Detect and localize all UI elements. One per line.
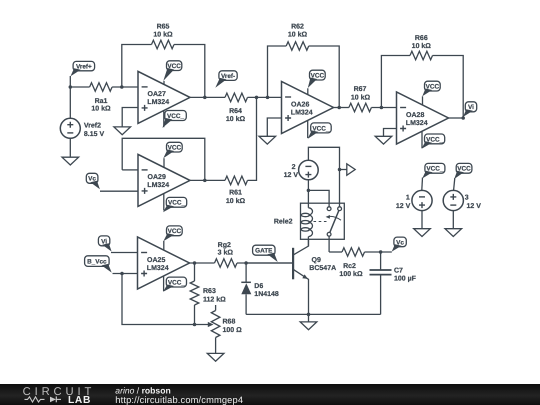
- svg-text:VCC_: VCC_: [167, 113, 184, 120]
- svg-text:10 kΩ: 10 kΩ: [351, 94, 371, 102]
- svg-text:OA29: OA29: [148, 174, 166, 181]
- svg-text:VCC: VCC: [167, 63, 181, 70]
- svg-text:OA27: OA27: [148, 91, 166, 98]
- svg-text:3: 3: [465, 194, 469, 201]
- svg-text:VCC: VCC: [457, 166, 471, 173]
- svg-text:Vc: Vc: [396, 239, 404, 246]
- svg-text:Vref-: Vref-: [221, 73, 235, 80]
- svg-text:LAB: LAB: [68, 395, 91, 405]
- svg-text:R68: R68: [223, 318, 236, 325]
- svg-text:Vref2: Vref2: [84, 121, 101, 129]
- svg-text:8.15 V: 8.15 V: [84, 131, 105, 138]
- svg-text:VCC: VCC: [168, 145, 182, 152]
- svg-text:3 kΩ: 3 kΩ: [218, 248, 234, 256]
- svg-text:R64: R64: [229, 108, 242, 115]
- svg-text:C7: C7: [394, 267, 403, 274]
- svg-text:Rc2: Rc2: [343, 263, 356, 270]
- svg-text:OA25: OA25: [147, 257, 165, 264]
- svg-text:10 kΩ: 10 kΩ: [412, 42, 432, 50]
- svg-text:VCC_: VCC_: [168, 200, 185, 207]
- svg-text:Vi: Vi: [101, 238, 107, 245]
- svg-text:112 kΩ: 112 kΩ: [203, 296, 226, 304]
- svg-text:100 kΩ: 100 kΩ: [339, 270, 363, 278]
- svg-text:12 V: 12 V: [467, 203, 482, 210]
- svg-text:B_Vcc: B_Vcc: [87, 259, 107, 266]
- svg-text:12 V: 12 V: [396, 203, 411, 210]
- svg-text:Vref+: Vref+: [76, 64, 92, 71]
- svg-text:R62: R62: [291, 24, 304, 31]
- svg-text:OA28: OA28: [406, 112, 424, 119]
- svg-text:Q9: Q9: [312, 257, 321, 264]
- svg-text:12 V: 12 V: [284, 172, 299, 179]
- svg-text:D6: D6: [254, 283, 263, 290]
- svg-text:R67: R67: [354, 86, 367, 93]
- svg-text:VCC_: VCC_: [312, 125, 329, 132]
- svg-text:10 kΩ: 10 kΩ: [226, 115, 246, 123]
- svg-text:1N4148: 1N4148: [254, 291, 279, 298]
- svg-text:R66: R66: [415, 35, 428, 42]
- svg-text:OA26: OA26: [291, 101, 309, 108]
- svg-text:R65: R65: [157, 24, 170, 31]
- svg-text:VCC: VCC: [426, 84, 440, 91]
- svg-text:VCC: VCC: [168, 228, 182, 235]
- svg-text:BC547A: BC547A: [309, 265, 336, 272]
- svg-text:Vi: Vi: [468, 104, 474, 111]
- svg-text:1: 1: [406, 194, 410, 201]
- svg-text:http://circuitlab.com/cmmgep4: http://circuitlab.com/cmmgep4: [115, 395, 243, 405]
- svg-text:10 kΩ: 10 kΩ: [91, 104, 111, 112]
- svg-text:LM324: LM324: [406, 120, 428, 127]
- svg-text:Ra1: Ra1: [95, 98, 108, 105]
- svg-text:VCC_: VCC_: [168, 279, 185, 286]
- svg-text:100 µF: 100 µF: [394, 275, 417, 282]
- svg-text:10 kΩ: 10 kΩ: [226, 197, 246, 205]
- svg-text:Rele2: Rele2: [274, 218, 293, 226]
- svg-text:LM324: LM324: [291, 109, 313, 116]
- svg-text:R61: R61: [229, 190, 242, 197]
- svg-text:Rg2: Rg2: [218, 242, 231, 249]
- svg-text:LM324: LM324: [147, 265, 169, 272]
- svg-text:LM324: LM324: [147, 182, 169, 189]
- svg-text:Vc: Vc: [88, 176, 96, 183]
- svg-text:LM324: LM324: [147, 99, 169, 106]
- svg-text:R63: R63: [203, 288, 216, 295]
- svg-text:100 Ω: 100 Ω: [223, 327, 243, 334]
- svg-text:VCC_: VCC_: [426, 166, 443, 173]
- svg-text:2: 2: [292, 164, 296, 171]
- svg-text:GATE: GATE: [255, 248, 273, 255]
- svg-text:10 kΩ: 10 kΩ: [288, 31, 308, 39]
- svg-text:10 kΩ: 10 kΩ: [153, 31, 173, 39]
- svg-text:VCC_: VCC_: [426, 136, 443, 143]
- svg-text:VCC: VCC: [311, 73, 325, 80]
